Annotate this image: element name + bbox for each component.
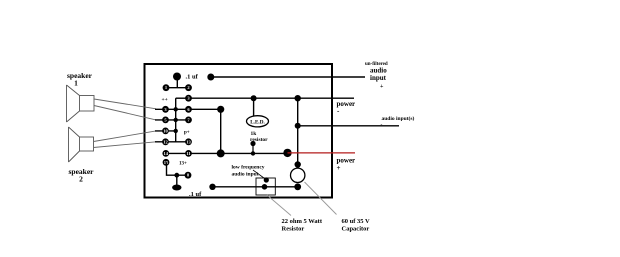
capacitor C3 60uf 35V [291, 168, 305, 182]
resistor R2 label [282, 218, 323, 233]
svg-text:1: 1 [74, 79, 78, 88]
wire vertical 221 [220, 109, 222, 153]
leader to resistor label [267, 195, 291, 216]
capacitor C1 .1 uf (top) [166, 73, 199, 88]
pin 5 left [162, 117, 169, 124]
svg-text:speaker: speaker [67, 71, 93, 80]
pin 1 [163, 84, 170, 91]
leader to input node [253, 170, 266, 180]
wire bus vertical V1 [175, 98, 177, 142]
LED D1 [247, 116, 269, 127]
speaker 1 label [67, 71, 93, 88]
svg-text:low frequency: low frequency [232, 165, 265, 171]
svg-text:p+: p+ [184, 131, 190, 136]
power minus label [337, 100, 356, 115]
speaker 2 label [69, 167, 95, 184]
un-filtered audio input label [365, 62, 388, 90]
pin 14 left [162, 150, 169, 157]
svg-text:14: 14 [164, 151, 169, 156]
wire LED to row153 [250, 141, 255, 156]
pin 15 [163, 159, 170, 166]
junction audio inputs [295, 123, 301, 129]
svg-text:L.E.D.: L.E.D. [250, 119, 265, 125]
wire row 120 [155, 119, 189, 121]
pin 8 [185, 172, 192, 179]
junction V1 row120 [174, 118, 178, 122]
pin 10 left [162, 127, 169, 134]
audio input(s) wire [298, 125, 399, 127]
speaker 1 [67, 85, 95, 122]
leader to capacitor label [305, 182, 337, 215]
pin 3 [185, 95, 192, 102]
wire down to LED [253, 98, 255, 116]
wire row 109 [155, 108, 221, 110]
wire row pin3 to V1 [176, 97, 189, 99]
svg-text:11: 11 [186, 151, 191, 156]
wire row 142 [155, 141, 189, 143]
junction node at 221,109 [217, 106, 224, 113]
capacitor C3 60uf junction top [295, 161, 301, 167]
wire row 153 [166, 152, 288, 154]
LED branch: junction on power line [251, 95, 257, 101]
svg-text:22 ohm 5 Watt: 22 ohm 5 Watt [282, 218, 323, 225]
wire row 131 [155, 130, 176, 132]
bottom wire row 187 [209, 184, 297, 190]
svg-text:60 uf 35 V: 60 uf 35 V [342, 218, 371, 225]
un-filtered audio input wire [207, 74, 365, 81]
svg-text:audio input(s): audio input(s) [382, 115, 415, 122]
pin 3 left [162, 106, 169, 113]
capacitor C2 .1 uf (bottom) [172, 175, 202, 198]
svg-text:.1 uf: .1 uf [189, 191, 202, 198]
capacitor C3 junction bottom [294, 183, 301, 190]
wire L from pin15 down [167, 162, 189, 175]
pin 6 [185, 106, 192, 113]
svg-text:2: 2 [79, 175, 83, 184]
svg-text:.1 uf: .1 uf [186, 74, 199, 81]
junction at 177,175 [174, 173, 179, 178]
capacitor C3 label [342, 218, 371, 233]
wire power minus line [189, 97, 355, 99]
svg-text:Resistor: Resistor [282, 226, 305, 233]
svg-text:audio input: audio input [232, 172, 259, 178]
svg-text:13: 13 [186, 139, 191, 144]
junction node at 221,153 [217, 149, 225, 157]
pin 2 [185, 84, 192, 91]
svg-text:++: ++ [162, 97, 168, 103]
pin 7 [185, 117, 192, 124]
junction top of right bus [295, 95, 301, 101]
power plus red wire [283, 149, 355, 157]
low frequency audio input label [232, 165, 265, 178]
pin 13 [185, 138, 192, 145]
junction V1 row109 [174, 107, 178, 111]
resistor R2 22 ohm box [256, 178, 275, 195]
speaker 2 wires [94, 131, 157, 148]
svg-text:input: input [370, 74, 387, 82]
node input dot [264, 177, 269, 182]
speaker 2 [69, 127, 94, 162]
svg-text:-: - [381, 122, 383, 128]
amplifier box outline [145, 64, 333, 198]
svg-text:10: 10 [163, 128, 168, 133]
audio input(s) label [381, 115, 415, 128]
junction V1 row131 [174, 129, 178, 133]
svg-text:13+: 13+ [179, 162, 187, 167]
svg-text:12: 12 [163, 139, 168, 144]
svg-text:+: + [380, 84, 384, 90]
svg-text:+: + [337, 164, 341, 172]
pin 12 left [162, 138, 169, 145]
resistor R1 1k label [250, 131, 268, 143]
pin 11 [185, 150, 192, 157]
speaker 1 wires [94, 99, 156, 120]
svg-text:Capacitor: Capacitor [342, 226, 370, 233]
power plus label [337, 157, 356, 173]
right vertical bus [297, 98, 299, 168]
